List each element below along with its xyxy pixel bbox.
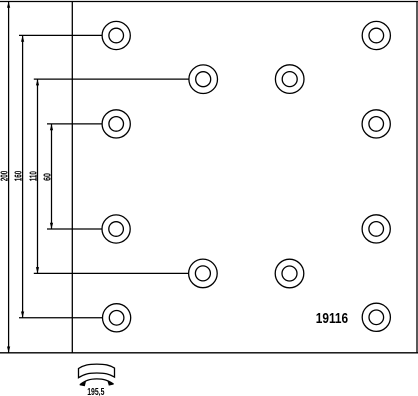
leader wire hole L2: [47, 123, 102, 125]
hole ML2: [189, 259, 218, 288]
dimension line 160: [21, 35, 24, 317]
svg-text:195,5: 195,5: [87, 386, 104, 396]
hole R4: [362, 303, 390, 331]
top edge line of lining: [0, 1, 418, 3]
lining cross-section arc band: [79, 364, 115, 378]
hole R3: [362, 215, 390, 243]
hole ML1: [189, 65, 218, 94]
hole R2: [362, 110, 390, 138]
hole L1: [102, 21, 130, 49]
hole L3: [102, 215, 130, 243]
leader wire hole ML1: [34, 78, 189, 80]
hole L4: [103, 304, 131, 332]
hole R1: [362, 21, 390, 49]
leader wire hole L1: [19, 34, 102, 36]
svg-text:60: 60: [42, 173, 53, 181]
svg-text:110: 110: [28, 171, 39, 181]
radius dimension arc 195,5: [80, 379, 114, 386]
hole MR2: [275, 259, 304, 288]
svg-text:200: 200: [0, 170, 11, 181]
dimension line 60: [50, 124, 53, 229]
left edge of lining: [71, 2, 73, 353]
hole MR1: [275, 65, 304, 94]
svg-text:19116: 19116: [316, 310, 348, 327]
leader wire hole L4: [19, 317, 103, 319]
svg-text:160: 160: [13, 170, 24, 181]
hole L2: [102, 110, 130, 138]
right edge of lining: [416, 2, 418, 353]
bottom edge line of lining: [0, 352, 418, 354]
dimension line 200: [7, 2, 10, 353]
leader wire hole ML2: [34, 272, 189, 274]
leader wire hole L3: [47, 228, 102, 230]
dimension line 110: [36, 79, 39, 273]
